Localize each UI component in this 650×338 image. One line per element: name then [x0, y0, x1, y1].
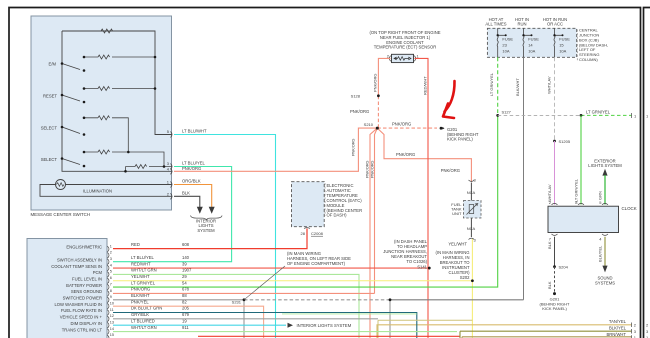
svg-text:23: 23 [502, 43, 507, 48]
svg-text:15: 15 [110, 333, 114, 337]
svg-text:PNK/ORG: PNK/ORG [396, 152, 415, 157]
svg-text:BRN/WHT: BRN/WHT [606, 332, 626, 337]
svg-text:S141: S141 [417, 265, 427, 270]
svg-text:1: 1 [646, 113, 649, 118]
svg-text:FUSE: FUSE [559, 36, 570, 41]
svg-text:TAN/YEL: TAN/YEL [609, 319, 627, 324]
svg-text:ENGLISH/METRIC: ENGLISH/METRIC [66, 245, 102, 250]
svg-text:TRANS CTRL IND LT: TRANS CTRL IND LT [62, 327, 103, 332]
svg-text:9: 9 [110, 295, 112, 299]
svg-text:LT GRN/YEL: LT GRN/YEL [586, 110, 611, 115]
svg-text:2: 2 [110, 251, 112, 255]
svg-text:PNK/ORG: PNK/ORG [373, 74, 378, 92]
svg-text:BLK/YEL: BLK/YEL [598, 245, 603, 262]
svg-text:3: 3 [646, 329, 649, 334]
svg-text:6: 6 [110, 276, 112, 280]
svg-text:39: 39 [182, 261, 187, 266]
svg-text:VEHICLE SPEED IN +: VEHICLE SPEED IN + [60, 315, 103, 320]
svg-text:S1205: S1205 [559, 139, 571, 144]
svg-text:S128: S128 [351, 94, 361, 99]
svg-text:NCA: NCA [467, 190, 476, 195]
svg-text:LT GRN/YEL: LT GRN/YEL [489, 72, 494, 96]
svg-text:WHT/LAV: WHT/LAV [547, 76, 552, 94]
svg-text:RED/WHT: RED/WHT [131, 261, 151, 266]
svg-text:7: 7 [110, 282, 112, 286]
svg-text:LIGHTS SYSTEM: LIGHTS SYSTEM [588, 163, 622, 168]
svg-text:608: 608 [182, 242, 190, 247]
svg-text:28: 28 [301, 231, 306, 236]
svg-text:PNK/ORG: PNK/ORG [371, 160, 375, 178]
svg-text:RED/WHT: RED/WHT [423, 76, 428, 95]
svg-text:BLK: BLK [547, 241, 552, 249]
svg-text:BLK/WHT: BLK/WHT [515, 78, 520, 96]
svg-text:CLOCK: CLOCK [622, 206, 637, 211]
svg-text:S204: S204 [559, 265, 569, 270]
svg-text:BLK/YEL: BLK/YEL [609, 326, 627, 331]
svg-text:1: 1 [110, 244, 112, 248]
svg-text:2: 2 [634, 323, 637, 328]
svg-text:2: 2 [646, 323, 649, 328]
svg-text:ILLUMINATION: ILLUMINATION [83, 189, 112, 194]
svg-text:5: 5 [110, 270, 112, 274]
svg-text:S231: S231 [232, 300, 242, 305]
svg-text:FUEL FLOW RATE IN: FUEL FLOW RATE IN [61, 308, 102, 313]
svg-text:8: 8 [110, 289, 112, 293]
svg-text:10A: 10A [502, 48, 509, 53]
svg-text:LT BLU/YEL: LT BLU/YEL [131, 255, 155, 260]
svg-text:10A: 10A [559, 48, 566, 53]
svg-text:GRN: GRN [598, 191, 603, 200]
svg-text:RED: RED [131, 242, 140, 247]
svg-text:PNK/ORG: PNK/ORG [350, 109, 369, 114]
svg-text:TO C1026): TO C1026) [406, 259, 427, 264]
svg-text:OR ACC: OR ACC [547, 22, 563, 27]
svg-text:13: 13 [110, 321, 114, 325]
svg-text:LT BLU/WHT: LT BLU/WHT [182, 129, 207, 134]
svg-text:SENS GROUND: SENS GROUND [71, 289, 102, 294]
svg-text:TEMPERATURE (ECT) SENSOR: TEMPERATURE (ECT) SENSOR [374, 45, 437, 50]
svg-text:LT GRN/YEL: LT GRN/YEL [574, 178, 579, 202]
svg-text:KICK PANEL): KICK PANEL) [542, 306, 567, 311]
svg-text:FUEL LEVEL IN: FUEL LEVEL IN [72, 276, 102, 281]
svg-text:BLK: BLK [547, 281, 552, 289]
svg-text:12: 12 [110, 314, 114, 318]
svg-text:COOLANT TEMP SENS IN: COOLANT TEMP SENS IN [51, 264, 102, 269]
svg-text:FUSE: FUSE [528, 36, 539, 41]
svg-text:RESET: RESET [43, 94, 57, 99]
svg-text:INTERIOR LIGHTS SYSTEM: INTERIOR LIGHTS SYSTEM [297, 323, 352, 328]
svg-text:C2008: C2008 [311, 231, 324, 236]
svg-text:DIM DISPLAY IN: DIM DISPLAY IN [71, 321, 103, 326]
svg-text:PNK/ORG: PNK/ORG [365, 160, 369, 178]
svg-text:15: 15 [559, 43, 564, 48]
svg-text:10A: 10A [528, 48, 535, 53]
svg-text:MESSAGE CENTER SWITCH: MESSAGE CENTER SWITCH [31, 212, 91, 217]
svg-text:YEL/WHT: YEL/WHT [448, 241, 467, 246]
svg-text:RUN: RUN [517, 22, 526, 27]
svg-text:SYSTEM: SYSTEM [197, 228, 215, 233]
svg-text:FUSE: FUSE [502, 36, 513, 41]
svg-text:1: 1 [417, 54, 420, 59]
svg-text:ALL TIMES: ALL TIMES [485, 22, 506, 27]
svg-text:BATTERY POWER: BATTERY POWER [66, 283, 102, 288]
svg-text:OF DASH): OF DASH) [327, 213, 348, 218]
svg-text:NCA: NCA [467, 226, 476, 231]
svg-text:SELECT: SELECT [41, 157, 58, 162]
svg-text:OF ENGINE COMPARTMENT): OF ENGINE COMPARTMENT) [287, 261, 346, 266]
svg-text:7: 7 [549, 237, 552, 242]
svg-text:S210: S210 [364, 122, 374, 127]
svg-text:4: 4 [599, 237, 602, 242]
svg-text:LT BLU/YEL: LT BLU/YEL [182, 161, 206, 166]
svg-text:ORG/BLK: ORG/BLK [182, 179, 201, 184]
svg-text:140: 140 [182, 255, 190, 260]
svg-text:BLK: BLK [182, 191, 190, 196]
svg-text:PNK/ORG: PNK/ORG [392, 122, 411, 127]
svg-text:3: 3 [634, 329, 637, 334]
svg-text:SWITCHED POWER: SWITCHED POWER [63, 296, 102, 301]
svg-text:3: 3 [474, 178, 477, 183]
svg-text:KICK PANEL): KICK PANEL) [447, 137, 473, 142]
svg-text:UNIT: UNIT [452, 211, 462, 216]
svg-text:PNK/ORG: PNK/ORG [441, 168, 460, 173]
svg-text:4: 4 [110, 263, 112, 267]
svg-text:11: 11 [110, 308, 114, 312]
svg-text:3: 3 [474, 238, 477, 243]
svg-text:E/M: E/M [49, 62, 57, 67]
svg-text:3: 3 [110, 257, 112, 261]
svg-text:S127: S127 [502, 110, 512, 115]
svg-text:COLUMN): COLUMN) [579, 57, 598, 62]
svg-text:1: 1 [634, 113, 637, 118]
svg-text:LOW WASHER FLUID IN: LOW WASHER FLUID IN [54, 302, 102, 307]
svg-text:SYSTEMS: SYSTEMS [595, 281, 615, 286]
svg-text:SWITCH ASSEMBLY IN: SWITCH ASSEMBLY IN [57, 257, 102, 262]
svg-text:SELECT: SELECT [41, 126, 58, 131]
svg-text:S202: S202 [460, 275, 470, 280]
svg-text:PNK/ORG: PNK/ORG [352, 138, 356, 156]
svg-text:PCM: PCM [93, 270, 103, 275]
svg-text:14: 14 [528, 43, 533, 48]
svg-text:14: 14 [110, 327, 114, 331]
svg-text:10: 10 [110, 301, 114, 305]
